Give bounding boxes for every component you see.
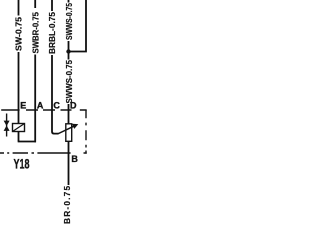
- wire W4 middle segment: [68, 41, 70, 60]
- wire W1 lower segment: [18, 52, 20, 110]
- svg-text:SWWS-0.75: SWWS-0.75: [64, 3, 74, 40]
- wire W2 top segment (to pin A): [34, 0, 36, 8]
- wire coil to pin A (U bottom): [18, 141, 36, 143]
- adjustment arrow head: [72, 124, 78, 129]
- junction dot: [66, 49, 70, 53]
- wire pin B down: [68, 153, 70, 185]
- solenoid coil rectangle: [13, 124, 25, 132]
- wire W1 top segment (to pin E): [18, 0, 20, 16]
- svg-text:BRBL-0.75: BRBL-0.75: [47, 12, 57, 54]
- svg-text:B: B: [71, 154, 78, 164]
- wire branch to right riser: [69, 0, 87, 52]
- svg-text:D: D: [70, 100, 77, 110]
- wire W4 top tick: [68, 0, 70, 3]
- component box Y18 top edge (dashed segments): [1, 109, 87, 111]
- svg-text:Y18: Y18: [14, 155, 30, 171]
- wire pin E to coil: [18, 110, 20, 124]
- solenoid coil diagonal: [13, 124, 25, 132]
- wire W4 segment to pin D: [68, 104, 70, 110]
- valve lower triangle: [4, 126, 10, 131]
- wire below coil: [18, 132, 20, 142]
- svg-text:E: E: [20, 100, 26, 110]
- component box bottom edge (dash-dot): [0, 152, 87, 154]
- component box right edge (dash-dot): [85, 110, 87, 154]
- valve upper triangle: [4, 121, 10, 126]
- svg-text:SW-0.75: SW-0.75: [13, 17, 23, 51]
- wire resistor to pin B: [68, 141, 70, 153]
- svg-text:BR-0.75: BR-0.75: [62, 185, 72, 224]
- wire W3 top segment (to pin C): [51, 0, 53, 11]
- wire pin D to resistor: [68, 110, 70, 124]
- wire W3 lower segment: [51, 55, 53, 110]
- adjustment arrow shaft: [58, 125, 76, 134]
- svg-text:SWBR-0.75: SWBR-0.75: [30, 12, 40, 54]
- svg-text:C: C: [53, 100, 60, 110]
- resistor rectangle: [66, 124, 72, 142]
- valve stem: [6, 114, 8, 137]
- wire W2 lower segment: [34, 55, 36, 111]
- wire pin C down: [52, 110, 59, 134]
- wire pin A down: [34, 110, 36, 142]
- svg-text:A: A: [37, 100, 44, 110]
- svg-text:SWWS-0.75: SWWS-0.75: [64, 60, 74, 104]
